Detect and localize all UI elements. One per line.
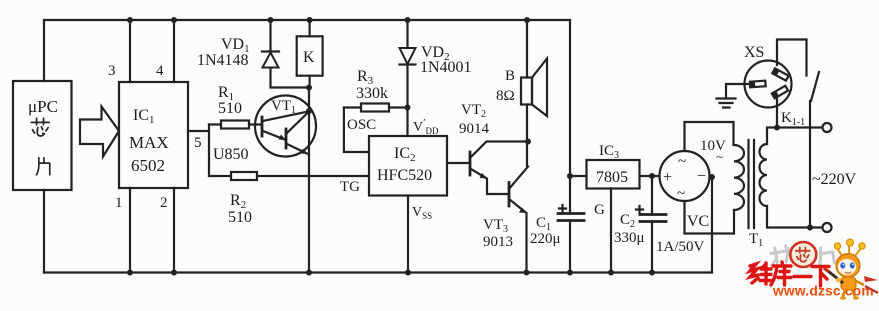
svg-text:510: 510: [228, 209, 252, 226]
wire K/VD1 junction down to VT1 collector: [306, 88, 312, 276]
resistor R1 510: [209, 84, 262, 129]
svg-text:IC1: IC1: [133, 107, 155, 126]
IC U1 MAX6502: [119, 82, 188, 188]
socket XS: [744, 44, 792, 108]
wire primary bottom to AC terminal: [767, 206, 823, 231]
svg-text:IC2: IC2: [394, 145, 416, 164]
label ~220V: [812, 171, 857, 188]
svg-text:3: 3: [108, 63, 116, 79]
wire bridge top to secondary top: [685, 122, 734, 151]
svg-text:U850: U850: [213, 146, 249, 163]
svg-text:VSS: VSS: [412, 205, 432, 221]
label T1: [749, 231, 763, 249]
wire XS left pin to ground: [726, 84, 752, 98]
node pin 5 wire: [188, 131, 209, 151]
svg-text:1N4001: 1N4001: [420, 59, 472, 76]
transistor VT1 darlington: [255, 96, 316, 157]
node 4 top pin wire IC1: [156, 17, 177, 82]
transistor VT3 9013: [483, 167, 530, 276]
transformer T1 primary winding: [760, 144, 768, 206]
wire primary top to AC terminal: [767, 125, 823, 145]
wire XS bottom pin to AC top line: [776, 99, 778, 128]
resistor R3 330k: [344, 68, 408, 112]
wire IC2 output to VT2 base: [447, 162, 470, 164]
wire bottom ground rail: [44, 271, 712, 273]
svg-text:XS: XS: [744, 44, 764, 61]
wire top supply rail: [44, 19, 570, 21]
node TG pin label: [340, 179, 360, 195]
svg-text:IC3: IC3: [599, 143, 619, 161]
wire left branch through uPC: [43, 20, 45, 273]
node OSC pin label: [347, 117, 376, 133]
watermark char pian: [817, 246, 835, 265]
svg-text:330μ: 330μ: [614, 230, 645, 246]
svg-text:C2: C2: [620, 212, 635, 230]
svg-text:T1: T1: [749, 231, 763, 249]
svg-text:K1-1: K1-1: [781, 110, 805, 128]
wire speaker branch: [524, 17, 530, 166]
svg-text:1N4148: 1N4148: [197, 52, 249, 69]
svg-text:VT3: VT3: [483, 217, 508, 235]
svg-text:7805: 7805: [596, 169, 628, 186]
svg-text:1A/50V: 1A/50V: [656, 239, 705, 255]
transformer T1 core: [749, 140, 755, 228]
svg-text:~: ~: [678, 154, 686, 170]
node VDD pin label: [413, 117, 439, 136]
transformer T1 secondary winding: [734, 145, 744, 210]
label U850: [213, 146, 249, 163]
svg-text:4: 4: [156, 63, 164, 79]
terminal AC top: [823, 123, 832, 132]
uPC chip box: [13, 81, 72, 190]
ground: [717, 99, 736, 108]
svg-text:8Ω: 8Ω: [496, 88, 515, 104]
svg-text:330k: 330k: [356, 85, 388, 102]
svg-text:B: B: [505, 68, 515, 84]
diode VD1 1N4148: [197, 17, 309, 88]
svg-text:510: 510: [218, 100, 242, 117]
svg-text:G: G: [594, 202, 605, 218]
capacitor C1 220u: [530, 205, 584, 247]
diode VD2 1N4001: [400, 17, 472, 136]
wire XS top pin over to switch: [777, 40, 807, 76]
node 1 bottom pin wire IC1: [115, 188, 133, 276]
svg-text:www.dzsc.com: www.dzsc.com: [772, 284, 874, 299]
watermark text weikuyixia: [750, 262, 829, 286]
resistor R2 510: [209, 172, 369, 226]
svg-text:~220V: ~220V: [812, 171, 857, 188]
svg-text:TG: TG: [340, 179, 360, 195]
svg-text:6502: 6502: [131, 156, 165, 175]
svg-text:2: 2: [160, 195, 168, 211]
svg-text:~: ~: [677, 186, 685, 202]
capacitor C2 330u: [614, 173, 666, 276]
wire junction vertical pin5: [208, 125, 210, 177]
wire switch bottom to AC bottom: [809, 101, 811, 228]
relay K: [297, 17, 323, 91]
wire bridge bottom to secondary bottom: [685, 201, 735, 234]
svg-text:V′DD: V′DD: [413, 117, 439, 136]
speaker B 8ohm: [496, 59, 547, 117]
wire G pin to ground rail: [594, 189, 614, 276]
svg-text:VT1: VT1: [271, 98, 296, 116]
IC U3 7805 regulator: [570, 143, 660, 189]
node 3 top pin wire IC1: [108, 17, 133, 82]
watermark: [750, 239, 878, 300]
svg-text:−: −: [697, 168, 706, 185]
svg-text:MAX: MAX: [129, 133, 169, 152]
block arrow from uPC to IC1: [80, 107, 119, 157]
watermark mascot: [824, 239, 878, 300]
wire bridge minus to ground rail: [709, 174, 715, 273]
watermark red circle with xin: [790, 242, 816, 267]
svg-text:HFC520: HFC520: [377, 167, 432, 184]
svg-text:9013: 9013: [483, 234, 513, 250]
IC U2 HFC520: [369, 136, 447, 196]
label K1-1: [781, 110, 805, 128]
bridge rectifier VC: [660, 151, 710, 230]
label 10V~: [700, 138, 726, 164]
svg-text:9014: 9014: [459, 121, 490, 137]
svg-text:VC: VC: [687, 213, 709, 230]
svg-text:+: +: [663, 169, 672, 186]
svg-text:5: 5: [194, 135, 202, 151]
wire top rail corner down to 7805 input: [567, 20, 573, 276]
label 1A/50V: [656, 239, 705, 255]
svg-text:OSC: OSC: [347, 117, 376, 133]
svg-text:μPC: μPC: [28, 97, 58, 116]
node 2 bottom pin wire IC1: [160, 188, 177, 276]
wire VSS to ground rail: [405, 196, 411, 276]
switch K1-1 blade: [811, 72, 819, 101]
svg-text:VT2: VT2: [461, 102, 486, 120]
label chinese "xin" glyph in uPC box: [31, 118, 49, 136]
svg-text:1: 1: [115, 195, 123, 211]
svg-text:K: K: [303, 49, 315, 66]
node VSS pin label: [412, 205, 432, 221]
watermark char zhao: [770, 245, 796, 265]
svg-text:220μ: 220μ: [530, 231, 561, 247]
wire OSC feedback loop: [344, 108, 369, 153]
svg-text:~: ~: [716, 149, 723, 164]
terminal AC bottom: [823, 223, 832, 232]
transistor VT2 9014: [459, 102, 531, 194]
label chinese "pian" glyph in uPC box: [37, 158, 50, 175]
